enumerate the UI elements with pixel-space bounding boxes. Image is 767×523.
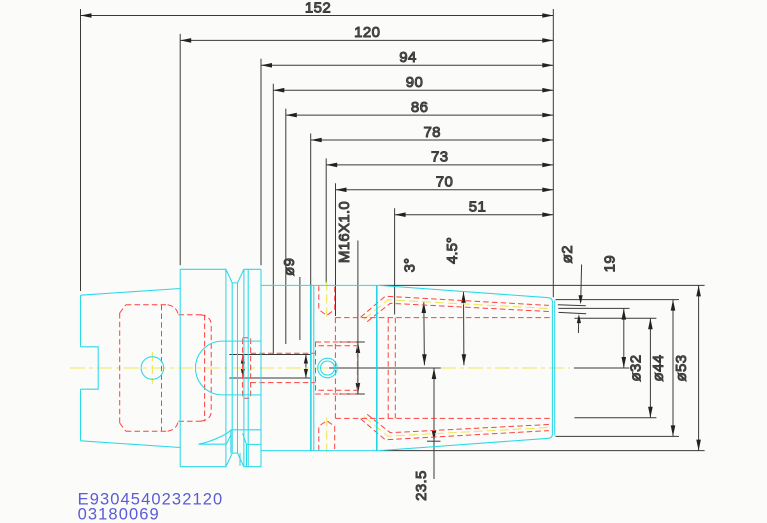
M16 thread minor bottom	[319, 389, 358, 391]
dimension ø53	[673, 285, 701, 450]
top coolant channel centreline	[364, 300, 549, 320]
slot inner edge	[239, 453, 241, 466]
dimension ø9	[281, 258, 308, 378]
svg-text:152: 152	[305, 0, 331, 16]
extension lines diameter 53	[380, 284, 705, 286]
slot top edge	[231, 429, 261, 431]
V groove bottom edge right	[237, 283, 239, 453]
cavity top wall	[126, 304, 168, 306]
tube bore dim line	[241, 355, 245, 379]
cavity inner shoulder	[201, 315, 212, 421]
main centreline right part	[441, 367, 570, 369]
M16 thread minor top	[319, 345, 358, 347]
slot right floor	[247, 443, 262, 445]
nose rear face	[376, 285, 378, 450]
dimension 23.5	[413, 368, 441, 501]
cavity chamfer top	[120, 305, 126, 313]
coolant exit centreline	[558, 307, 629, 309]
V ring edge 1	[225, 269, 227, 466]
svg-text:120: 120	[354, 24, 380, 41]
lock hole centreline	[151, 352, 153, 384]
svg-text:78: 78	[423, 124, 441, 141]
tube bore bottom wall	[251, 382, 316, 384]
top coolant channel wall b	[367, 303, 549, 321]
cavity corner bottom	[168, 421, 179, 431]
svg-text:94: 94	[399, 49, 417, 66]
body joint line 1	[310, 285, 312, 450]
coolant hole wall bottom	[559, 312, 587, 313]
svg-text:ø9: ø9	[281, 258, 298, 276]
bottom coolant channel centreline	[364, 417, 549, 437]
leader 4.5 degrees	[444, 237, 466, 365]
svg-text:90: 90	[406, 74, 424, 91]
dimension 19	[602, 255, 627, 368]
bottom set screw plug	[319, 421, 335, 451]
bore step face 2	[394, 318, 396, 419]
coolant tube bottom	[222, 394, 261, 396]
coolant tube nut hidden	[243, 338, 251, 398]
centreline segment (black) for 19 dim	[574, 367, 630, 369]
svg-text:19: 19	[602, 255, 619, 273]
svg-text:86: 86	[411, 99, 429, 116]
drive slot floor	[199, 443, 227, 445]
right reference extension line	[552, 9, 554, 297]
lock hole circle	[141, 357, 164, 380]
top set screw plug	[319, 286, 335, 316]
dimension 73	[326, 149, 553, 283]
dimension 70	[336, 174, 554, 316]
nose taper bottom	[380, 438, 549, 450]
dimension ø32	[627, 318, 652, 417]
collar ring edge	[247, 269, 249, 466]
HSK shank face	[80, 295, 82, 347]
shank taper top	[81, 289, 181, 296]
svg-text:ø2: ø2	[559, 245, 576, 263]
V groove bottom edge left	[231, 283, 233, 453]
nose tip face	[549, 298, 553, 439]
nose bore back face	[334, 318, 336, 419]
dimension M16X1.0	[336, 201, 365, 394]
svg-text:51: 51	[469, 199, 487, 216]
dimension ø9 ticks	[229, 354, 311, 356]
coolant hole wall top	[558, 305, 586, 306]
cavity chamfer bottom	[120, 423, 126, 431]
nose taper top	[380, 285, 549, 297]
bottom coolant channel wall a	[361, 419, 549, 440]
leader 3 degrees	[402, 258, 427, 365]
shank taper bottom	[81, 441, 181, 448]
slot right edge	[246, 444, 248, 466]
centreline segment (black) under angle leaders	[329, 367, 441, 369]
extension lines diameter 32	[574, 317, 656, 319]
cavity corner top	[168, 305, 179, 315]
cavity neck bottom wall	[178, 420, 204, 422]
cavity neck top wall	[178, 314, 204, 316]
bore step face 1	[387, 318, 389, 419]
main centreline	[70, 367, 329, 369]
cavity mid face	[161, 305, 163, 431]
nose bore circle inner	[321, 361, 335, 375]
dimension 86	[286, 99, 554, 344]
dimension 90	[273, 74, 553, 355]
bottom coolant channel wall b	[367, 414, 549, 432]
svg-text:3°: 3°	[402, 258, 419, 272]
svg-text:70: 70	[436, 174, 454, 191]
cavity neck face	[204, 315, 206, 421]
drive slot edge	[230, 430, 232, 453]
flange left face	[179, 269, 181, 466]
nose tip face second line	[554, 301, 556, 436]
flange top with V groove	[180, 269, 261, 283]
M16 thread bore	[316, 342, 358, 394]
dimension 78	[311, 124, 554, 355]
face notch	[81, 347, 99, 389]
dimension 94	[261, 49, 553, 265]
nose bore top wall	[335, 317, 551, 319]
flange right face	[260, 269, 262, 466]
drive slot arc	[199, 430, 231, 444]
extension lines diameter 44	[556, 299, 680, 301]
dimension 120	[180, 24, 553, 265]
body joint line 2	[313, 285, 315, 450]
coolant tube top	[222, 340, 261, 342]
svg-text:4.5°: 4.5°	[444, 237, 461, 264]
nose bore circle outer	[318, 358, 338, 378]
body bottom edge	[261, 450, 380, 452]
svg-text:ø44: ø44	[650, 354, 667, 381]
drive slot slant	[226, 435, 231, 444]
svg-text:73: 73	[431, 149, 449, 166]
svg-text:ø53: ø53	[673, 354, 690, 381]
svg-text:M16X1.0: M16X1.0	[336, 201, 353, 263]
svg-text:03180069: 03180069	[78, 506, 160, 523]
svg-text:ø32: ø32	[627, 354, 644, 381]
HSK cavity left wall	[119, 313, 121, 423]
top plug centreline	[326, 282, 328, 319]
top coolant channel wall a	[361, 296, 549, 317]
bottom plug centreline	[326, 418, 328, 455]
dimension 51	[395, 199, 554, 315]
V ring edge 2	[243, 269, 245, 466]
cavity bottom wall	[126, 430, 168, 432]
svg-text:23.5: 23.5	[413, 470, 430, 500]
flange bottom with V groove	[180, 453, 261, 467]
slot right slant	[243, 434, 247, 445]
coolant tube cap	[195, 341, 222, 395]
dimension 152	[81, 0, 554, 291]
body top edge	[261, 284, 380, 286]
tube bore top wall	[251, 352, 316, 354]
dimension ø44	[650, 300, 675, 437]
dimension ø2	[558, 245, 586, 333]
nose bore bottom wall	[335, 417, 551, 419]
